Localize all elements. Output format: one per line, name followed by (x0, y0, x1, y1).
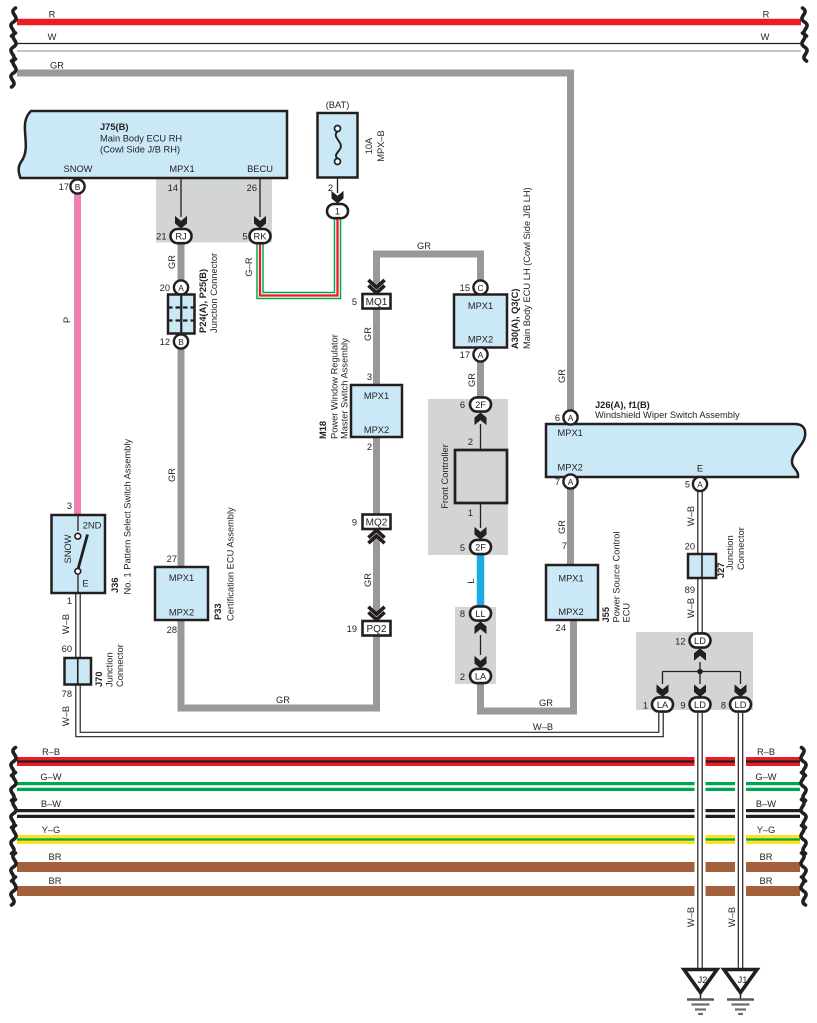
wire thin, front controller pin 1 down-arrow to 2F (475, 503, 487, 540)
svg-text:LA: LA (475, 671, 487, 681)
wire bus R-B (17, 757, 800, 766)
svg-text:C: C (477, 283, 483, 293)
svg-text:3: 3 (67, 501, 72, 511)
svg-text:BECU: BECU (247, 164, 273, 174)
wire W-B, J36 pin 1 to J70 pin 60 (75, 593, 81, 658)
pin 17 circle B (59, 179, 85, 193)
wire break squiggle W right (802, 33, 807, 61)
svg-text:MPX1: MPX1 (558, 574, 583, 584)
svg-text:8: 8 (460, 609, 465, 619)
wire thin, fuse to node 1 with arrow (332, 163, 344, 204)
svg-text:W: W (761, 32, 770, 42)
svg-text:14: 14 (168, 183, 178, 193)
svg-text:J1: J1 (738, 975, 748, 985)
svg-text:2F: 2F (475, 542, 486, 552)
svg-text:LA: LA (657, 700, 669, 710)
svg-text:21: 21 (156, 232, 166, 242)
svg-text:2: 2 (367, 442, 372, 452)
svg-text:GR: GR (539, 698, 553, 708)
svg-text:W–B: W–B (686, 907, 696, 927)
svg-text:GR: GR (276, 695, 290, 705)
svg-text:2: 2 (468, 437, 473, 447)
wire thin, J75 BECU to RK with arrow (254, 178, 266, 229)
svg-text:12: 12 (675, 637, 685, 647)
wire GR, P33 pin 28 down, right, up to PQ2 (181, 620, 377, 708)
svg-text:2F: 2F (475, 400, 486, 410)
svg-text:P33: P33 (213, 603, 223, 620)
svg-text:5: 5 (242, 232, 247, 242)
svg-text:RJ: RJ (175, 231, 186, 241)
label J36 No. 1 Pattern Select Switch Assembly (110, 439, 133, 595)
fuse MPX-B box (318, 113, 358, 178)
svg-text:6: 6 (460, 400, 465, 410)
svg-text:1: 1 (335, 206, 340, 216)
svg-text:R–B: R–B (42, 747, 60, 757)
svg-text:7: 7 (555, 477, 560, 487)
svg-text:B: B (178, 337, 184, 347)
svg-text:PQ2: PQ2 (366, 624, 386, 635)
label P33 Certification ECU Assembly (213, 507, 236, 621)
svg-text:J70: J70 (94, 671, 104, 687)
switch J26 box (546, 424, 805, 477)
svg-text:78: 78 (62, 689, 72, 699)
svg-text:MQ2: MQ2 (366, 517, 388, 528)
svg-text:Y–G: Y–G (42, 825, 61, 835)
svg-text:MPX2: MPX2 (364, 425, 389, 435)
label J26(A), f1(B) title (595, 400, 740, 420)
svg-text:Y–G: Y–G (757, 825, 776, 835)
svg-text:LD: LD (735, 700, 747, 710)
shaded junction block under J75 (156, 178, 272, 243)
svg-text:7: 7 (562, 541, 567, 551)
svg-text:1: 1 (468, 508, 473, 518)
junction dot LD splice (697, 669, 703, 675)
wire bus BR lower (17, 886, 800, 896)
junction connector J27 (685, 542, 716, 596)
wire W-B, J27 pin 89 to LD pin 12 (697, 578, 703, 634)
svg-text:MPX2: MPX2 (558, 607, 583, 617)
junction connector J70 (62, 644, 91, 699)
wire bus W top (17, 44, 801, 52)
svg-text:B: B (75, 182, 81, 192)
shaded block LL-LA (455, 607, 496, 684)
label A30(A), Q3(C) Main Body ECU LH (510, 187, 532, 349)
svg-text:GR: GR (167, 468, 177, 482)
wire GR, RJ to P24 pin 20 (178, 243, 185, 281)
connector RJ oval (156, 229, 191, 243)
ECU P33 box (155, 567, 208, 620)
svg-text:BR: BR (49, 876, 62, 886)
connector 2F oval (pin 5) (460, 540, 491, 554)
svg-text:26: 26 (247, 183, 257, 193)
svg-text:3: 3 (367, 372, 372, 382)
wire break squiggle R left (11, 8, 16, 36)
svg-text:5: 5 (460, 543, 465, 553)
wire GR, J26 pin 7 to J55 pin 7 (567, 488, 574, 565)
svg-text:20: 20 (160, 283, 170, 293)
svg-text:RK: RK (254, 231, 268, 241)
svg-text:MPX1: MPX1 (169, 573, 194, 583)
svg-text:24: 24 (556, 623, 566, 633)
connector LD oval (pin 8) (721, 697, 751, 711)
svg-text:(Cowl Side J/B RH): (Cowl Side J/B RH) (100, 145, 180, 155)
svg-text:17: 17 (460, 350, 470, 360)
svg-text:J55: J55 (601, 607, 611, 623)
wire GR, MQ2 to PQ2 (373, 537, 380, 614)
svg-text:G–R: G–R (244, 257, 254, 276)
svg-text:SNOW: SNOW (64, 164, 93, 174)
svg-text:MQ1: MQ1 (366, 297, 388, 308)
svg-text:GR: GR (557, 369, 567, 383)
svg-text:G–W: G–W (755, 772, 776, 782)
wire GR, A30 pin 17 to 2F (477, 361, 484, 397)
svg-text:P24(A), P25(B): P24(A), P25(B) (198, 269, 208, 333)
svg-text:MPX1: MPX1 (558, 428, 583, 438)
svg-text:W: W (48, 32, 57, 42)
connector MQ1 box (352, 294, 391, 309)
label M18 Power Window Regulator Master Switch Assembly (318, 334, 350, 439)
pin 7 circle A (555, 474, 578, 488)
node 1 oval under fuse (327, 204, 348, 218)
shaded block front controller (428, 399, 508, 555)
wire L blue, 2F to LL (477, 555, 485, 608)
connector LL oval (pin 8) (460, 606, 491, 620)
wire thin, LL to LA with two arrows (475, 622, 487, 669)
svg-text:J75(B): J75(B) (100, 122, 128, 132)
svg-text:Connector: Connector (115, 644, 125, 687)
svg-text:GR: GR (417, 241, 431, 251)
svg-text:GR: GR (467, 373, 477, 387)
connector PQ2 box (347, 621, 391, 636)
svg-text:J26(A), f1(B): J26(A), f1(B) (595, 400, 650, 410)
wire W-B, J70 pin 78 down, right, up to LA pin 1 (78, 684, 661, 735)
wire P pink, J75 pin 17 to J36 pin 3 (74, 193, 81, 515)
svg-text:L: L (466, 578, 476, 583)
svg-text:17: 17 (59, 182, 69, 192)
connector RK oval (242, 229, 270, 243)
svg-text:A: A (568, 477, 574, 487)
connector LA oval (pin 1) (643, 697, 673, 711)
svg-text:No. 1 Pattern Select Switch As: No. 1 Pattern Select Switch Assembly (123, 439, 133, 595)
svg-text:19: 19 (347, 624, 357, 634)
ECU J75(B) box (19, 111, 287, 178)
svg-text:W–B: W–B (686, 598, 696, 618)
wire bus G-W (17, 782, 800, 791)
svg-text:2: 2 (328, 183, 333, 193)
wire break squiggles bottom right (801, 748, 806, 906)
chevrons above PQ2 (368, 607, 384, 620)
svg-text:Power Window Regulator: Power Window Regulator (330, 334, 340, 439)
label J70 Junction Connector (94, 644, 125, 687)
svg-text:12: 12 (160, 337, 170, 347)
svg-text:MPX2: MPX2 (558, 463, 583, 473)
wire G-R, RK to fuse node 1 (260, 218, 338, 296)
svg-text:W–B: W–B (533, 722, 553, 732)
wire bus BR upper (17, 862, 800, 872)
svg-text:A: A (178, 283, 184, 293)
svg-text:89: 89 (685, 585, 695, 595)
svg-text:P: P (62, 317, 72, 323)
wire thin, front controller pin 2 up-arrow to 2F (475, 413, 487, 451)
svg-text:MPX–B: MPX–B (376, 130, 386, 162)
svg-text:R: R (49, 10, 56, 20)
svg-text:G–W: G–W (40, 772, 61, 782)
svg-text:E: E (697, 464, 703, 474)
connector LD oval (pin 12) (675, 633, 710, 647)
svg-text:10A: 10A (364, 137, 374, 154)
connector LA oval (pin 2) (460, 669, 491, 683)
svg-text:9: 9 (352, 517, 357, 527)
switch M18 box (351, 385, 402, 437)
svg-text:8: 8 (721, 701, 726, 711)
svg-text:Certification ECU Assembly: Certification ECU Assembly (226, 507, 236, 621)
svg-text:A30(A), Q3(C): A30(A), Q3(C) (510, 289, 520, 349)
wire bus Y-G (17, 835, 800, 844)
front controller box (455, 450, 507, 503)
fuse element (335, 126, 341, 165)
svg-text:MPX2: MPX2 (468, 335, 493, 345)
svg-text:MPX1: MPX1 (468, 301, 493, 311)
wire W-B, LD pin 9 to ground J2 (695, 713, 706, 969)
wire GR, MQ1 to M18 pin 3 (373, 309, 380, 386)
svg-text:Junction: Junction (105, 652, 115, 687)
wire W-B, LD pin 8 to ground J1 (735, 713, 746, 969)
svg-text:9: 9 (680, 701, 685, 711)
wire break squiggle R right (802, 8, 807, 36)
label 10A MPX-B (364, 130, 386, 162)
svg-text:Main Body ECU RH: Main Body ECU RH (100, 134, 182, 144)
connector LD oval (pin 9) (680, 697, 710, 711)
svg-text:MPX1: MPX1 (169, 164, 194, 174)
label P24(A), P25(B) Junction Connector (198, 253, 219, 333)
svg-text:28: 28 (167, 625, 177, 635)
wire break squiggle W left (11, 33, 16, 61)
switch J36 box (52, 515, 106, 593)
svg-text:Power Source Control: Power Source Control (612, 532, 622, 623)
svg-text:(BAT): (BAT) (326, 100, 350, 110)
svg-text:J2: J2 (698, 975, 708, 985)
svg-text:LD: LD (694, 636, 706, 646)
wire bus GR top, drops to J26 pin 6 (17, 73, 571, 411)
svg-text:E: E (82, 579, 88, 589)
svg-text:27: 27 (167, 554, 177, 564)
svg-text:W–B: W–B (61, 614, 71, 634)
svg-text:1: 1 (67, 596, 72, 606)
svg-text:2ND: 2ND (83, 521, 102, 531)
shaded block LD splice (636, 632, 753, 710)
svg-text:2: 2 (460, 672, 465, 682)
connector MQ2 box (352, 515, 391, 530)
svg-text:BR: BR (760, 852, 773, 862)
svg-text:GR: GR (167, 255, 177, 269)
svg-text:Junction: Junction (725, 535, 735, 570)
svg-text:20: 20 (685, 542, 695, 552)
ground J1 (724, 970, 757, 1015)
svg-text:ECU: ECU (622, 603, 632, 623)
wire bus B-W (17, 809, 800, 818)
wire break squiggle GR left (11, 59, 16, 87)
svg-text:Main Body ECU LH (Cowl Side J/: Main Body ECU LH (Cowl Side J/B LH) (522, 187, 532, 349)
wire GR, LA down right up to J55 pin 24 (481, 620, 574, 711)
svg-text:LD: LD (694, 700, 706, 710)
label J55 Power Source Control ECU (601, 532, 632, 623)
connector 2F oval (pin 6) (460, 397, 491, 411)
wire W-B, J26 pin 5 to J27 pin 20 (697, 491, 703, 554)
svg-text:LL: LL (475, 609, 485, 619)
wire GR, M18 pin 2 to MQ2 (373, 437, 380, 515)
pin 6 circle A (555, 410, 578, 424)
svg-text:W–B: W–B (686, 506, 696, 526)
svg-text:J36: J36 (110, 577, 120, 593)
svg-text:6: 6 (555, 413, 560, 423)
ECU J55 box (546, 541, 598, 633)
svg-text:Junction Connector: Junction Connector (209, 253, 219, 333)
svg-text:A: A (697, 480, 703, 490)
svg-text:BR: BR (49, 852, 62, 862)
svg-text:15: 15 (460, 283, 470, 293)
wire thin, LD splice tree (657, 648, 747, 697)
svg-text:B–W: B–W (41, 799, 61, 809)
svg-text:A: A (568, 413, 574, 423)
svg-text:Windshield Wiper Switch Assemb: Windshield Wiper Switch Assembly (595, 410, 740, 420)
wire GR, MQ1 top link from bus to A30 pin 15 (377, 254, 481, 287)
wire break squiggles bottom left (11, 748, 16, 906)
svg-text:5: 5 (685, 480, 690, 490)
svg-text:GR: GR (50, 61, 64, 71)
svg-text:60: 60 (62, 644, 72, 654)
svg-text:W–B: W–B (727, 907, 737, 927)
svg-text:Master Switch Assembly: Master Switch Assembly (340, 338, 350, 439)
junction connector P24 (160, 280, 195, 348)
svg-text:GR: GR (363, 327, 373, 341)
label J75(B) title (100, 122, 182, 155)
svg-text:M18: M18 (318, 421, 328, 439)
svg-text:Front Controller: Front Controller (440, 444, 450, 509)
svg-text:GR: GR (557, 520, 567, 534)
wire GR, P24 pin 12 to P33 pin 27 (178, 348, 185, 567)
svg-text:BR: BR (760, 876, 773, 886)
svg-text:B–W: B–W (756, 799, 776, 809)
svg-text:SNOW: SNOW (63, 534, 73, 563)
svg-text:MPX1: MPX1 (364, 391, 389, 401)
chevrons below MQ2 (368, 530, 384, 543)
ECU A30 box (454, 280, 507, 361)
svg-text:Connector: Connector (736, 527, 746, 570)
svg-text:1: 1 (643, 701, 648, 711)
chevrons above MQ1 (368, 280, 384, 293)
svg-text:R: R (763, 10, 770, 20)
svg-text:GR: GR (363, 573, 373, 587)
label J27 Junction Connector (716, 527, 746, 578)
wire bus R top (17, 19, 801, 26)
svg-text:A: A (478, 350, 484, 360)
svg-text:R–B: R–B (757, 747, 775, 757)
svg-text:W–B: W–B (61, 706, 71, 726)
wire thin, J75 MPX1 to RJ with arrow (175, 178, 187, 229)
pin 5 circle A (685, 477, 707, 491)
ground J2 (684, 970, 717, 1015)
svg-text:MPX2: MPX2 (169, 608, 194, 618)
svg-text:5: 5 (352, 297, 357, 307)
